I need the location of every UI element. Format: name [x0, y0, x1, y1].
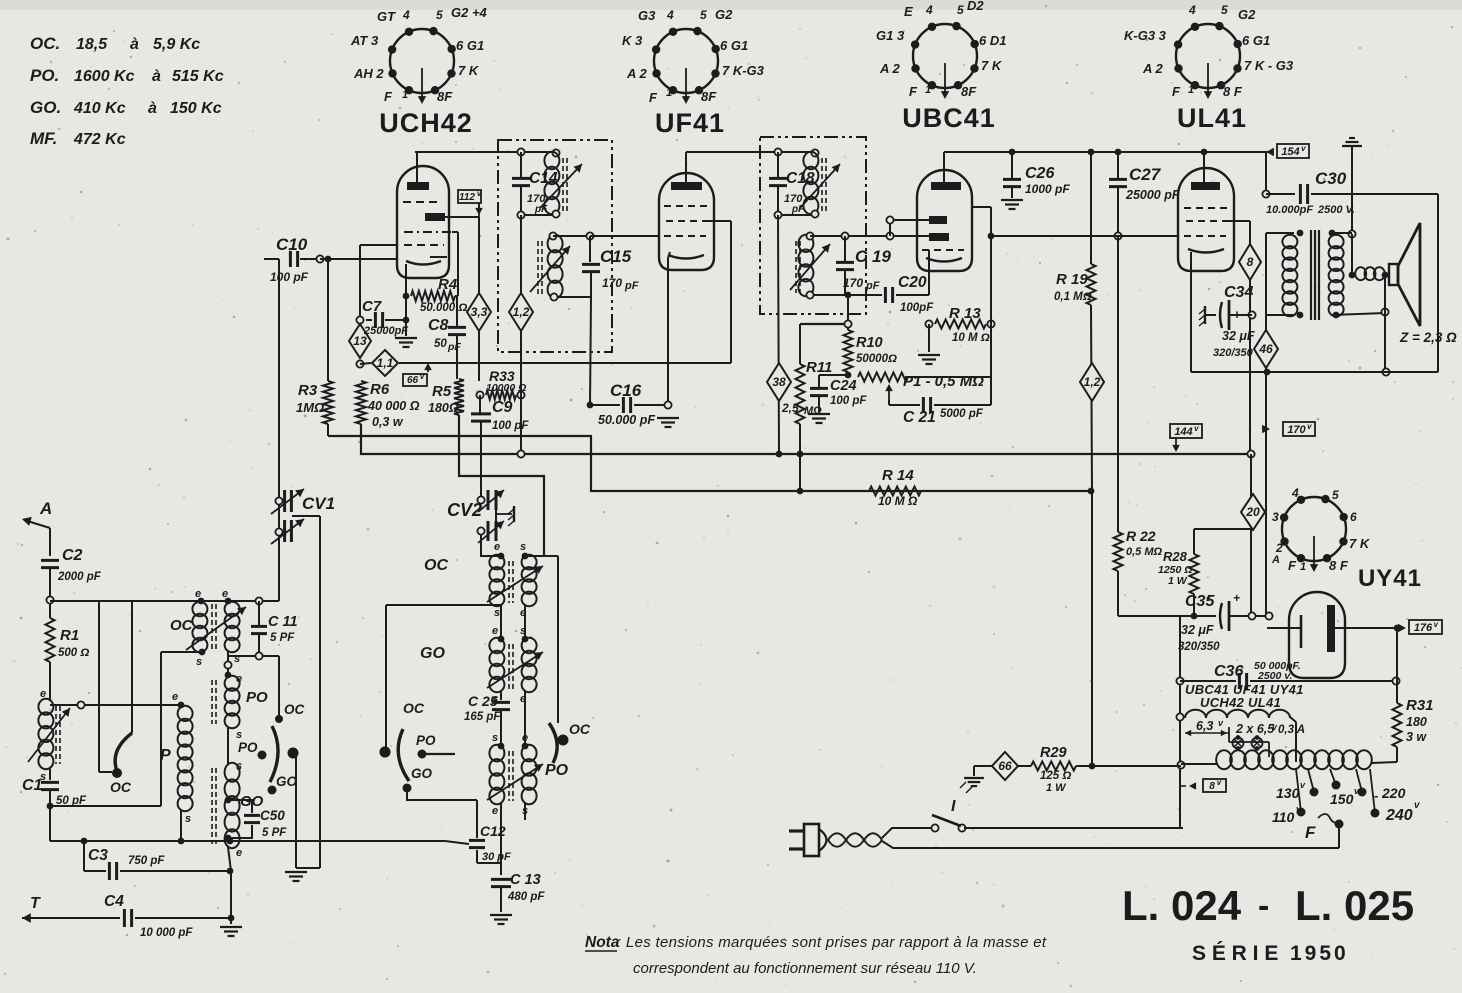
- svg-text:C20: C20: [898, 274, 927, 291]
- svg-text:46: 46: [1258, 342, 1273, 356]
- svg-text:R28: R28: [1163, 549, 1188, 564]
- svg-text:30 pF: 30 pF: [482, 851, 511, 863]
- svg-text:C1: C1: [22, 777, 43, 794]
- svg-text:L. 024: L. 024: [1122, 882, 1242, 929]
- svg-text:7 K: 7 K: [458, 63, 480, 78]
- svg-text:correspondent au fonctionnemen: correspondent au fonctionnement sur rése…: [633, 960, 977, 977]
- svg-text:4: 4: [402, 8, 410, 22]
- svg-text:C 21: C 21: [903, 409, 936, 426]
- svg-text:G3: G3: [638, 8, 656, 23]
- svg-text:1,2: 1,2: [1084, 375, 1101, 389]
- svg-text:R31: R31: [1406, 697, 1434, 714]
- svg-text:C24: C24: [830, 378, 857, 394]
- svg-text:10 M Ω: 10 M Ω: [878, 494, 918, 508]
- svg-text:v: v: [477, 189, 482, 198]
- svg-text:C18: C18: [786, 170, 815, 187]
- svg-text:R29: R29: [1040, 745, 1067, 761]
- svg-text:480 pF: 480 pF: [507, 891, 545, 903]
- svg-text:OC: OC: [569, 721, 591, 737]
- svg-text:OC.: OC.: [30, 34, 60, 53]
- svg-text:pF: pF: [865, 280, 880, 292]
- svg-text:C16: C16: [610, 381, 642, 400]
- svg-text:D2: D2: [967, 0, 984, 13]
- svg-text:v: v: [1434, 620, 1439, 629]
- svg-text:v: v: [1194, 424, 1199, 433]
- svg-text:5 PF: 5 PF: [270, 632, 295, 644]
- svg-text:C30: C30: [1315, 169, 1347, 188]
- svg-text:v: v: [1301, 144, 1306, 153]
- svg-text:AH 2: AH 2: [353, 66, 384, 81]
- svg-text:GO.: GO.: [30, 98, 61, 117]
- svg-text:G2: G2: [1238, 7, 1256, 22]
- svg-text:8 F: 8 F: [1329, 558, 1349, 573]
- svg-text:P: P: [160, 747, 171, 764]
- svg-text:s: s: [234, 653, 240, 665]
- svg-text:v: v: [420, 372, 425, 381]
- svg-text:320/350: 320/350: [1178, 641, 1220, 653]
- svg-text:R 19: R 19: [1056, 271, 1088, 288]
- svg-text:170: 170: [1287, 424, 1306, 436]
- svg-text:A 2: A 2: [626, 66, 648, 81]
- svg-text:240: 240: [1385, 807, 1413, 824]
- svg-text:100 pF: 100 pF: [830, 395, 867, 407]
- svg-text:C 25: C 25: [468, 693, 498, 709]
- svg-text:e: e: [494, 541, 500, 553]
- svg-text:0,1 MΩ: 0,1 MΩ: [1054, 291, 1092, 303]
- svg-text:50.000 pF: 50.000 pF: [598, 413, 655, 427]
- svg-text:50000Ω: 50000Ω: [856, 353, 897, 365]
- svg-text:144: 144: [1174, 426, 1192, 438]
- svg-text:1 W: 1 W: [1168, 575, 1188, 587]
- svg-text:OC: OC: [170, 617, 194, 634]
- svg-text:UCH42 UL41: UCH42 UL41: [1200, 695, 1281, 710]
- svg-text:A: A: [39, 499, 52, 518]
- svg-text:C15: C15: [600, 247, 632, 266]
- svg-text:38: 38: [772, 375, 786, 389]
- svg-text:UCH42: UCH42: [379, 108, 473, 138]
- svg-text:Nota: Nota: [585, 934, 620, 951]
- svg-text:50.000 Ω: 50.000 Ω: [420, 302, 467, 314]
- svg-text:150 Kc: 150 Kc: [170, 100, 222, 117]
- svg-text:165 pF: 165 pF: [464, 711, 501, 723]
- svg-text:4: 4: [925, 3, 933, 17]
- svg-text:3: 3: [1272, 510, 1279, 524]
- svg-text:K 3: K 3: [622, 33, 643, 48]
- svg-text:s: s: [520, 541, 526, 553]
- svg-text:G1 3: G1 3: [876, 28, 905, 43]
- svg-text:UBC41: UBC41: [902, 103, 996, 133]
- svg-text:R6: R6: [370, 381, 390, 398]
- svg-text:8F: 8F: [437, 89, 453, 104]
- svg-text:66: 66: [998, 759, 1012, 773]
- svg-text:e: e: [195, 588, 201, 600]
- svg-text:-: -: [1211, 306, 1216, 323]
- svg-text:pF: pF: [624, 280, 639, 292]
- svg-text:2500 v.: 2500 v.: [1257, 670, 1293, 682]
- svg-text:50: 50: [434, 338, 447, 350]
- svg-text:C27: C27: [1129, 165, 1162, 184]
- svg-text:F: F: [1305, 823, 1316, 842]
- svg-text:R5: R5: [432, 383, 452, 400]
- svg-text:112: 112: [459, 192, 475, 203]
- svg-text:180: 180: [1406, 715, 1427, 729]
- svg-text:Z = 2,3 Ω: Z = 2,3 Ω: [1399, 330, 1457, 345]
- svg-text:R10: R10: [856, 335, 883, 351]
- svg-text:pF: pF: [447, 341, 461, 353]
- svg-text:R1: R1: [60, 627, 79, 644]
- svg-text:0,3 w: 0,3 w: [372, 415, 404, 429]
- svg-text:100pF: 100pF: [900, 302, 934, 314]
- svg-text:R11: R11: [806, 359, 832, 376]
- svg-text:1: 1: [1188, 84, 1194, 96]
- svg-text:320/350: 320/350: [1213, 347, 1254, 359]
- svg-text:7 K: 7 K: [1349, 536, 1371, 551]
- svg-text:UF41: UF41: [655, 108, 725, 138]
- svg-text:6 D1: 6 D1: [979, 33, 1006, 48]
- svg-text:25000pF: 25000pF: [363, 325, 408, 337]
- svg-text:220: 220: [1381, 785, 1406, 801]
- svg-text:GO: GO: [420, 645, 445, 662]
- svg-text:2 x 6,5: 2 x 6,5: [1235, 722, 1275, 736]
- svg-text:L. 025: L. 025: [1295, 882, 1414, 929]
- svg-text:à: à: [152, 68, 161, 85]
- svg-text:1000 pF: 1000 pF: [1025, 182, 1070, 196]
- svg-text:1MΩ: 1MΩ: [296, 400, 324, 415]
- svg-text:R3: R3: [298, 382, 318, 399]
- svg-text:150: 150: [1330, 791, 1354, 807]
- svg-text:F: F: [649, 90, 658, 105]
- svg-text:10 000 pF: 10 000 pF: [140, 927, 193, 939]
- svg-text:CV1: CV1: [302, 494, 335, 513]
- svg-text:2,5: 2,5: [781, 401, 799, 415]
- svg-text:PO: PO: [246, 689, 268, 706]
- svg-text:7 K - G3: 7 K - G3: [1244, 58, 1294, 73]
- svg-text:C3: C3: [88, 847, 108, 864]
- svg-text:0,5 MΩ: 0,5 MΩ: [1126, 546, 1163, 558]
- svg-text:PO: PO: [416, 733, 436, 748]
- svg-text:CV2: CV2: [447, 500, 482, 520]
- svg-text:1: 1: [1300, 561, 1306, 573]
- svg-text:C26: C26: [1025, 165, 1054, 182]
- svg-text:1 W: 1 W: [1046, 782, 1067, 794]
- svg-text:GT: GT: [377, 9, 396, 24]
- svg-text:5: 5: [1221, 3, 1228, 17]
- svg-text:8F: 8F: [701, 89, 717, 104]
- svg-text:s: s: [196, 656, 202, 668]
- svg-text:v: v: [1217, 778, 1222, 787]
- svg-text:C8: C8: [428, 317, 449, 334]
- svg-text:e: e: [492, 805, 498, 817]
- svg-text:C7: C7: [362, 298, 382, 315]
- svg-text:R 22: R 22: [1126, 528, 1156, 544]
- svg-text:5: 5: [436, 8, 443, 22]
- svg-text:1950: 1950: [1290, 942, 1349, 965]
- svg-text:8: 8: [1247, 255, 1254, 269]
- svg-text:2500 V.: 2500 V.: [1317, 204, 1355, 216]
- svg-text:6 G1: 6 G1: [456, 38, 484, 53]
- svg-text:G2 +4: G2 +4: [451, 5, 488, 20]
- svg-text:6 G1: 6 G1: [720, 38, 748, 53]
- svg-text:UY41: UY41: [1358, 565, 1422, 592]
- svg-text:F: F: [909, 84, 918, 99]
- svg-text:PO.: PO.: [30, 66, 59, 85]
- svg-text:8 F: 8 F: [1223, 84, 1243, 99]
- svg-text:3 w: 3 w: [1406, 730, 1427, 744]
- svg-text:1: 1: [402, 89, 408, 101]
- svg-text:C 13: C 13: [510, 872, 541, 888]
- svg-text:UL41: UL41: [1177, 103, 1247, 133]
- svg-text:-: -: [1374, 788, 1378, 803]
- svg-text:100 pF: 100 pF: [492, 420, 529, 432]
- svg-text:1,2: 1,2: [513, 305, 530, 319]
- svg-text:4: 4: [1188, 3, 1196, 17]
- svg-text:6: 6: [1350, 510, 1357, 524]
- svg-text:5: 5: [957, 3, 964, 17]
- svg-text:F: F: [1288, 558, 1297, 573]
- svg-text:C36: C36: [1214, 663, 1243, 680]
- svg-text:4: 4: [1291, 486, 1299, 500]
- svg-text:472 Kc: 472 Kc: [73, 131, 126, 148]
- svg-text:T: T: [30, 895, 41, 912]
- svg-text:E: E: [904, 4, 913, 19]
- svg-text:7 K-G3: 7 K-G3: [722, 63, 765, 78]
- svg-text:e: e: [222, 588, 228, 600]
- svg-text:OC: OC: [424, 557, 448, 574]
- svg-text:GO: GO: [411, 766, 433, 781]
- svg-text:GO: GO: [276, 774, 298, 789]
- svg-text:G2: G2: [715, 7, 733, 22]
- svg-text:OC: OC: [284, 702, 305, 717]
- svg-text:s: s: [492, 732, 498, 744]
- svg-text:10.000pF: 10.000pF: [1266, 204, 1313, 216]
- svg-text:pF: pF: [534, 204, 548, 215]
- svg-text:154: 154: [1281, 146, 1299, 158]
- svg-text:750 pF: 750 pF: [128, 855, 165, 867]
- svg-text:v: v: [1307, 422, 1312, 431]
- svg-text:K-G3 3: K-G3 3: [1124, 28, 1167, 43]
- svg-text:I: I: [951, 798, 956, 815]
- svg-text:-: -: [1258, 887, 1269, 925]
- svg-text:C4: C4: [104, 893, 124, 910]
- svg-text:C35: C35: [1185, 593, 1215, 610]
- svg-text:e: e: [492, 625, 498, 637]
- svg-text:32 μF: 32 μF: [1181, 623, 1214, 637]
- svg-text:180Ω: 180Ω: [428, 401, 459, 415]
- svg-text:-: -: [1206, 589, 1211, 605]
- svg-text:C 19: C 19: [855, 247, 891, 266]
- svg-text:A 2: A 2: [879, 61, 901, 76]
- svg-text:+: +: [1233, 591, 1240, 605]
- svg-text:5: 5: [700, 8, 707, 22]
- svg-text:à: à: [148, 100, 157, 117]
- svg-text:100 pF: 100 pF: [270, 270, 309, 284]
- svg-text:A 2: A 2: [1142, 61, 1164, 76]
- svg-text:66: 66: [407, 375, 419, 386]
- svg-text:1: 1: [666, 87, 672, 99]
- svg-text:5 PF: 5 PF: [262, 827, 287, 839]
- svg-text:10 M Ω: 10 M Ω: [952, 332, 990, 344]
- svg-text:AT 3: AT 3: [350, 33, 379, 48]
- svg-text:PO: PO: [545, 762, 569, 779]
- svg-text:25000 pF: 25000 pF: [1125, 188, 1180, 202]
- svg-text:s: s: [494, 607, 500, 619]
- svg-text:C14: C14: [529, 170, 558, 187]
- svg-text:515 Kc: 515 Kc: [172, 68, 224, 85]
- svg-text:5,9 Kc: 5,9 Kc: [153, 36, 200, 53]
- svg-text:2000 pF: 2000 pF: [57, 571, 102, 583]
- svg-text:MF.: MF.: [30, 129, 57, 148]
- svg-text:OC: OC: [403, 700, 425, 716]
- svg-text:PO: PO: [238, 740, 258, 755]
- svg-text:3,3: 3,3: [471, 305, 488, 319]
- svg-text:410 Kc: 410 Kc: [73, 100, 126, 117]
- svg-text:F: F: [1172, 84, 1181, 99]
- svg-text:1: 1: [925, 84, 931, 96]
- svg-text:à: à: [130, 36, 139, 53]
- svg-text:5: 5: [1332, 488, 1339, 502]
- svg-text:P1 - 0,5 MΩ: P1 - 0,5 MΩ: [903, 373, 984, 390]
- svg-text:F: F: [384, 89, 393, 104]
- svg-text:R 13: R 13: [949, 305, 981, 322]
- svg-text:C34: C34: [1224, 284, 1253, 301]
- svg-text:e: e: [172, 691, 178, 703]
- svg-text:e: e: [522, 732, 528, 744]
- svg-text:6 G1: 6 G1: [1242, 33, 1270, 48]
- svg-text:20: 20: [1245, 505, 1260, 519]
- svg-text:s: s: [520, 625, 526, 637]
- svg-text:1,1: 1,1: [377, 356, 394, 370]
- svg-text:4: 4: [666, 8, 674, 22]
- svg-text:R4: R4: [438, 276, 458, 293]
- svg-text:8: 8: [1209, 781, 1215, 792]
- svg-text:C50: C50: [260, 808, 285, 823]
- svg-text:s: s: [185, 813, 191, 825]
- svg-text:5000 pF: 5000 pF: [940, 408, 984, 420]
- svg-text:R 14: R 14: [882, 467, 914, 484]
- svg-text:1600 Kc: 1600 Kc: [74, 68, 135, 85]
- svg-text:C 11: C 11: [268, 614, 298, 630]
- svg-text:pF: pF: [791, 204, 805, 215]
- svg-text:176: 176: [1414, 622, 1433, 634]
- svg-text:C2: C2: [62, 547, 83, 564]
- svg-text:130: 130: [1276, 785, 1300, 801]
- svg-text:500 Ω: 500 Ω: [58, 647, 89, 659]
- svg-text:0,3 A: 0,3 A: [1278, 724, 1305, 736]
- svg-text:S É R I E: S É R I E: [1192, 942, 1278, 965]
- svg-text:C10: C10: [276, 235, 308, 254]
- svg-text:2: 2: [1275, 541, 1283, 555]
- svg-text:6,3: 6,3: [1196, 719, 1213, 733]
- svg-text:C12: C12: [480, 823, 506, 839]
- svg-text:7 K: 7 K: [981, 58, 1003, 73]
- svg-text:32 μF: 32 μF: [1222, 329, 1255, 343]
- svg-text:125 Ω: 125 Ω: [1040, 770, 1071, 782]
- svg-text:OC: OC: [110, 779, 132, 795]
- svg-text:18,5: 18,5: [76, 36, 108, 53]
- svg-text:110: 110: [1272, 809, 1295, 825]
- svg-text:e: e: [236, 847, 242, 859]
- svg-text:8F: 8F: [961, 84, 977, 99]
- svg-text:40 000 Ω: 40 000 Ω: [367, 399, 420, 413]
- svg-text:170: 170: [843, 276, 863, 290]
- svg-text:A: A: [1271, 554, 1280, 566]
- svg-text:: Les tensions marquées sont p: : Les tensions marquées sont prises par …: [617, 934, 1047, 951]
- svg-text:170: 170: [602, 276, 622, 290]
